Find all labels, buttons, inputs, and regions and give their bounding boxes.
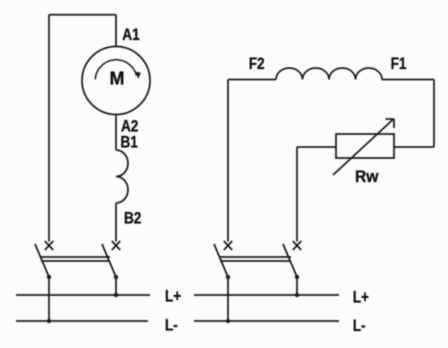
rheostat Rw arrow shaft <box>333 120 393 176</box>
svg-text:A1: A1 <box>122 26 140 45</box>
wire: Q2 pole2 to L+ rail <box>296 277 298 295</box>
L- rail right circuit <box>194 320 339 322</box>
node: Q2 pole2 hinge <box>295 275 299 279</box>
wire: rheostat left terminal <box>297 146 336 148</box>
inductor field winding F2-F1 <box>276 68 382 80</box>
wire: pole2 to L+ rail <box>115 277 117 295</box>
breaker Q2 linkage <box>220 257 291 261</box>
breaker Q2 pole1 contact X <box>224 241 232 250</box>
wire: pole1 to L- rail <box>48 277 50 321</box>
wire: corner to field winding F2 <box>228 79 276 81</box>
node: right L- junction <box>226 319 230 323</box>
wire: left circuit top horizontal <box>49 14 116 16</box>
svg-text:F1: F1 <box>391 55 407 74</box>
node: left L+ junction <box>114 293 118 297</box>
inductor series winding B1-B2 <box>116 150 128 203</box>
svg-text:M: M <box>110 69 125 89</box>
breaker Q1 pole1 contact X <box>45 241 53 250</box>
L+ rail right circuit <box>194 294 339 296</box>
wire: right vertical down to rheostat level <box>433 80 435 148</box>
node: Q1 pole2 hinge <box>114 275 118 279</box>
node: Q2 pole1 hinge <box>226 275 230 279</box>
wire: top to motor A1 terminal <box>115 15 117 47</box>
breaker Q2 pole2 lever <box>283 244 297 277</box>
L+ rail left circuit <box>16 294 150 296</box>
wire: F1 to right corner <box>382 79 434 81</box>
node: left L- junction <box>47 319 51 323</box>
breaker Q1 pole2 contact X <box>112 241 120 250</box>
wire: motor A2 to series winding B1 <box>115 115 117 151</box>
svg-text:L-: L- <box>353 317 366 336</box>
wire: B2 down to breaker pole2 contact <box>115 203 117 242</box>
breaker Q2 pole2 contact X <box>293 241 301 250</box>
node: right L+ junction <box>295 293 299 297</box>
wire: right circuit left vertical F2 feed <box>227 80 229 242</box>
svg-text:L-: L- <box>165 316 178 335</box>
wire: down to breaker pole2 contact <box>296 147 298 242</box>
breaker Q1 linkage <box>41 257 110 261</box>
breaker Q2 pole1 lever <box>214 244 228 277</box>
motor M1 rotation arrow arc <box>95 60 136 80</box>
node: Q1 pole1 hinge <box>47 275 51 279</box>
breaker Q1 pole1 lever <box>35 244 49 277</box>
svg-text:B2: B2 <box>124 209 141 228</box>
svg-text:Rw: Rw <box>355 167 379 186</box>
breaker Q1 pole2 lever <box>102 244 116 277</box>
svg-text:B1: B1 <box>121 133 139 152</box>
motor M1 rotation arrowhead <box>135 72 141 80</box>
motor M1 circle <box>82 47 150 115</box>
L- rail left circuit <box>16 320 148 322</box>
rheostat Rw arrowhead <box>386 119 395 128</box>
wire: Q2 pole1 to L- rail <box>227 277 229 321</box>
wire: left circuit left vertical (pole1 feed) <box>48 15 50 242</box>
svg-text:F2: F2 <box>249 55 265 74</box>
rheostat Rw body <box>336 134 394 158</box>
svg-text:L+: L+ <box>165 287 181 306</box>
svg-text:L+: L+ <box>353 288 369 307</box>
wire: to rheostat right terminal <box>394 146 434 148</box>
